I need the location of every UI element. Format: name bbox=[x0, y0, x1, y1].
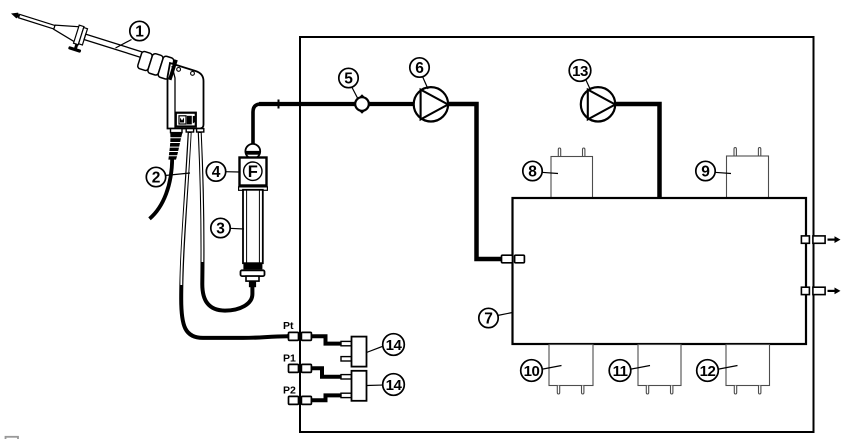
node P1 connector bbox=[289, 364, 342, 376]
condensate trap ball joint bbox=[245, 144, 260, 159]
label 3 bbox=[211, 218, 244, 237]
svg-text:14: 14 bbox=[386, 337, 403, 354]
handle connector block bbox=[176, 113, 196, 127]
label 10 bbox=[521, 360, 562, 382]
svg-text:12: 12 bbox=[700, 363, 716, 380]
label 14b bbox=[367, 374, 405, 396]
svg-text:P2: P2 bbox=[283, 385, 296, 397]
hose ports bbox=[171, 129, 183, 133]
node P2 connector bbox=[289, 395, 342, 404]
thermocouple cable 2 bbox=[150, 158, 173, 219]
sensor 11 bbox=[638, 345, 681, 395]
svg-text:14: 14 bbox=[386, 377, 403, 394]
gas sampling probe 1 bbox=[6, 4, 176, 80]
gas outlet 1 bbox=[801, 236, 840, 243]
handle screw holes bbox=[177, 68, 181, 72]
inline coupling 5 bbox=[352, 94, 372, 114]
label 8 bbox=[523, 161, 558, 180]
svg-text:5: 5 bbox=[344, 71, 353, 88]
svg-text:P1: P1 bbox=[283, 353, 296, 365]
handle coupling rings bbox=[137, 51, 153, 71]
analyzer housing outer box bbox=[300, 37, 814, 432]
wire: cable handle to Pt connector bbox=[181, 132, 288, 338]
svg-text:4: 4 bbox=[212, 164, 221, 181]
label 2 bbox=[146, 167, 190, 186]
wire: pipe pump6 to manifold inlet bbox=[448, 104, 517, 259]
pressure adapter block 14a bbox=[341, 337, 367, 367]
wire: hose white core (Pt hose) bbox=[181, 133, 190, 285]
pump 6 bbox=[414, 87, 448, 121]
label 13 bbox=[569, 60, 591, 90]
label 11 bbox=[609, 360, 650, 382]
node Pt connector bbox=[287, 332, 341, 343]
probe cone bbox=[52, 20, 80, 42]
label 1 bbox=[116, 21, 150, 48]
label 12 bbox=[697, 360, 738, 382]
label 14a bbox=[367, 334, 405, 356]
probe tip bbox=[10, 11, 20, 19]
cropped corner artifact bbox=[6, 437, 19, 439]
probe thin tube bbox=[19, 14, 55, 29]
wire: hose handle to trap bottom (U loop) bbox=[200, 132, 253, 311]
label 9 bbox=[696, 161, 731, 180]
cone clamp screw bbox=[74, 44, 78, 49]
svg-text:3: 3 bbox=[216, 221, 225, 238]
svg-text:13: 13 bbox=[572, 63, 588, 80]
gas outlet 2 bbox=[801, 287, 840, 294]
manifold block 7 bbox=[513, 198, 807, 344]
svg-text:11: 11 bbox=[613, 363, 628, 380]
purge pump 13 bbox=[581, 87, 615, 121]
svg-text:F: F bbox=[248, 163, 258, 181]
probe handle body bbox=[168, 63, 204, 160]
svg-text:7: 7 bbox=[484, 311, 493, 328]
wire: hose white core (trap hose) bbox=[200, 133, 203, 262]
cable strain relief ribs bbox=[168, 133, 182, 160]
svg-text:2: 2 bbox=[152, 170, 161, 187]
filter F4 box bbox=[239, 158, 268, 191]
svg-text:Pt: Pt bbox=[283, 320, 294, 332]
wire: pipe pump13 down to manifold bbox=[615, 104, 660, 197]
svg-text:1: 1 bbox=[135, 24, 144, 41]
sensor 10 bbox=[549, 345, 593, 395]
svg-text:9: 9 bbox=[701, 164, 710, 181]
label 4 bbox=[206, 162, 239, 181]
svg-text:6: 6 bbox=[415, 60, 424, 77]
sensor 9 bbox=[727, 148, 769, 199]
svg-text:10: 10 bbox=[524, 363, 540, 380]
water trap cylinder 3 bbox=[241, 190, 265, 287]
pressure adapter block 14b bbox=[341, 371, 367, 401]
probe ring-handle junction band bbox=[168, 59, 178, 80]
label 5 bbox=[339, 68, 358, 98]
wire: hose coupling tick bbox=[278, 100, 280, 109]
sensor 8 bbox=[551, 148, 593, 198]
svg-text:8: 8 bbox=[528, 164, 537, 181]
sensor 12 bbox=[726, 345, 770, 395]
cone end ring bbox=[74, 25, 84, 45]
probe main tube bbox=[84, 34, 147, 59]
manifold inlet connector bbox=[502, 255, 525, 263]
wire: sample hose from filter into housing to pump bbox=[253, 104, 261, 147]
label 6 bbox=[410, 58, 429, 89]
label 7 bbox=[479, 308, 513, 327]
